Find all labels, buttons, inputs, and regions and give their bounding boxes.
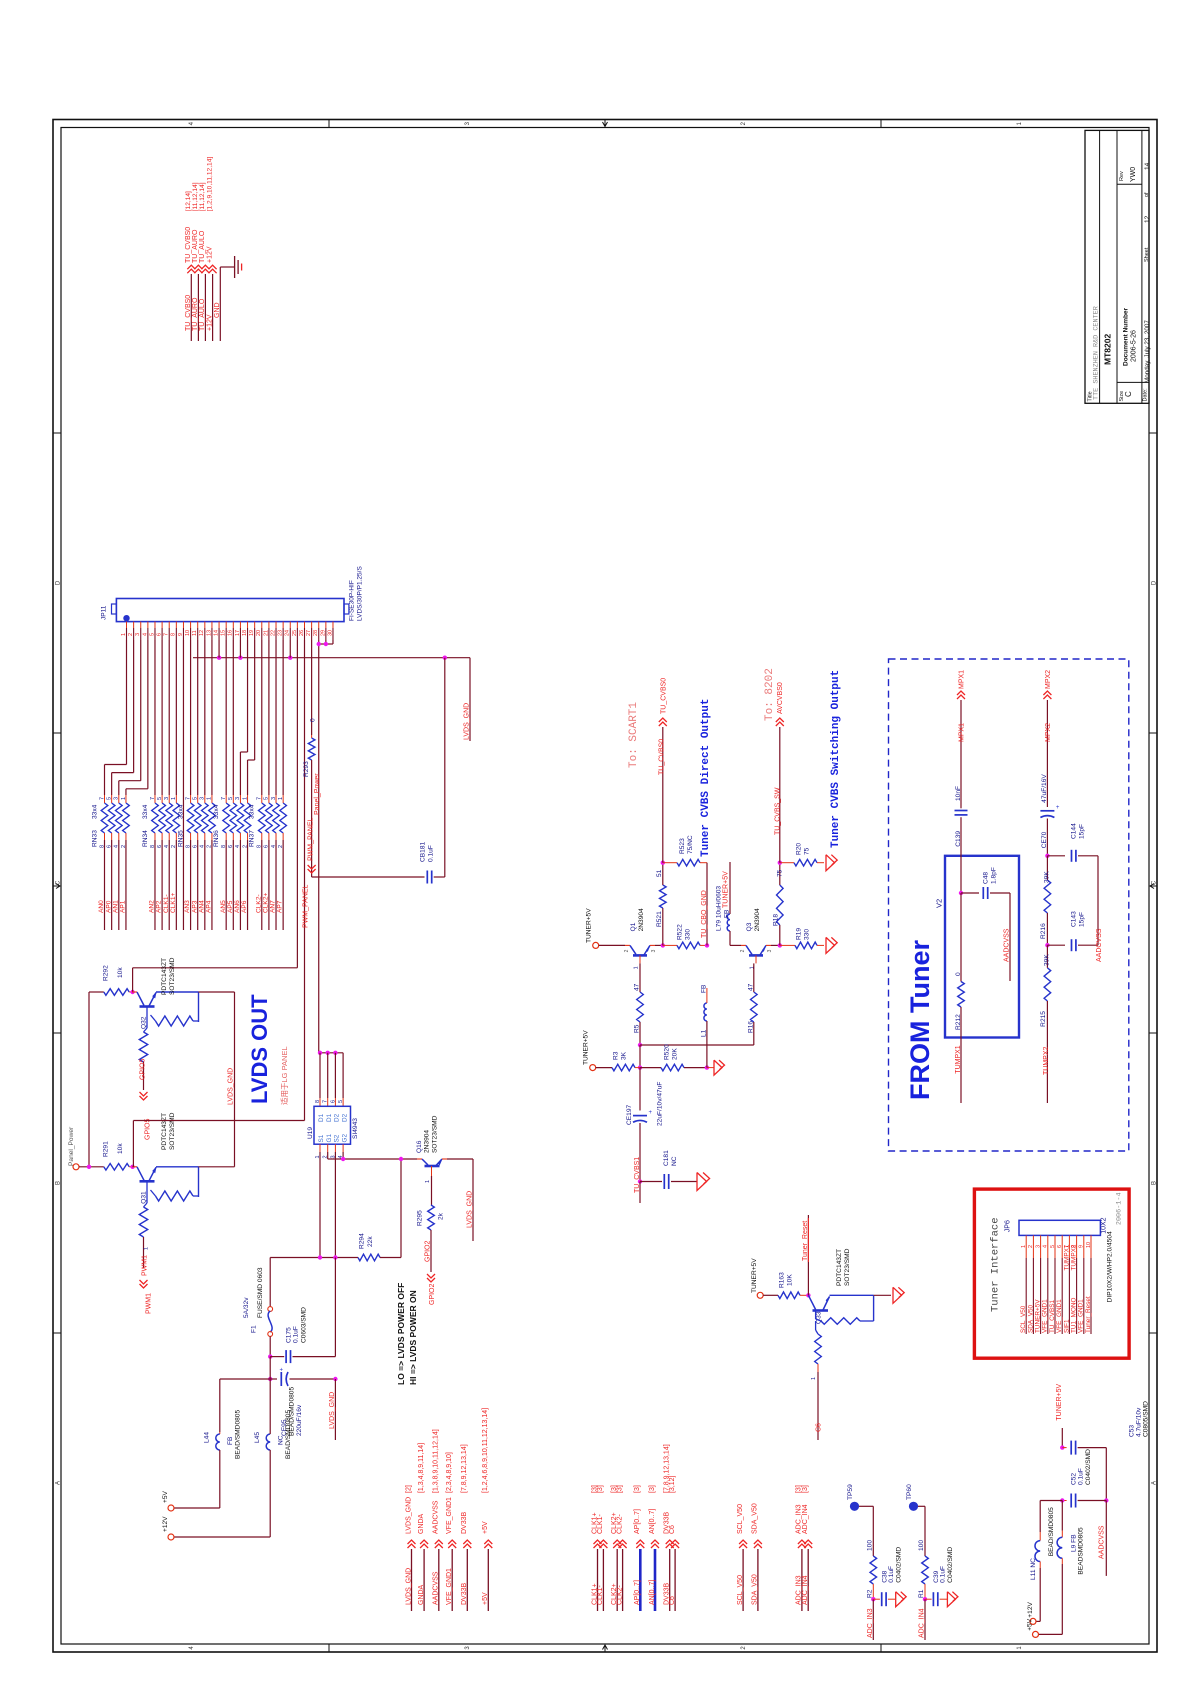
svg-text:1: 1 [811, 1377, 817, 1380]
svg-text:TU_AULO: TU_AULO [199, 230, 206, 263]
resistor R523 [663, 862, 677, 864]
red box Tuner Interface [974, 1189, 1129, 1358]
RN35 element 3 [204, 795, 206, 803]
wire pin5 [154, 640, 156, 795]
svg-text:+12V: +12V [162, 1516, 169, 1532]
svg-text:1: 1 [750, 966, 756, 969]
svg-text:39K: 39K [1044, 954, 1051, 966]
ground triangle C39 [947, 1592, 955, 1607]
zone ticks top edge [328, 120, 330, 128]
svg-text:TUNER+5V: TUNER+5V [586, 908, 593, 943]
transistor Q31 PDTC143ZT [132, 1166, 137, 1168]
resistor R16 [751, 992, 758, 1022]
junction dot Q3 emitter [778, 943, 782, 947]
wire TU_CBO_GND [706, 863, 708, 946]
svg-text:2: 2 [740, 949, 746, 952]
svg-text:4: 4 [1043, 1245, 1049, 1248]
svg-text:AN[0..7]: AN[0..7] [649, 1580, 656, 1605]
capacitor C139 [955, 810, 968, 812]
svg-text:AN4: AN4 [198, 900, 205, 913]
Q33 internal base resistor [815, 1321, 817, 1330]
resistor R5 [637, 992, 644, 1022]
wire RN36 out AP5 [232, 840, 234, 930]
input flag GPIO2 chevron [427, 1278, 435, 1282]
svg-text:9: 9 [1079, 1245, 1085, 1248]
RN34 element 4 [175, 795, 177, 803]
resistor R216 [1046, 856, 1048, 880]
junction dot C175 node [268, 1354, 272, 1358]
svg-text:R522: R522 [677, 924, 684, 940]
svg-text:TU_AURO: TU_AURO [192, 229, 199, 263]
center arrow left [53, 884, 60, 889]
svg-text:7: 7 [150, 797, 156, 800]
svg-text:[1,2,9,10,11,12,14]: [1,2,9,10,11,12,14] [206, 157, 213, 212]
junction dot R18 top [778, 861, 782, 865]
capacitor C143 branch [1047, 944, 1065, 946]
svg-text:CE70: CE70 [1041, 831, 1048, 848]
svg-text:HI => LVDS POWER ON: HI => LVDS POWER ON [408, 1290, 418, 1385]
svg-text:75/NC: 75/NC [687, 835, 694, 854]
svg-text:C143: C143 [1071, 911, 1078, 927]
svg-text:CLK1-: CLK1- [597, 1584, 604, 1605]
wire RN36 out AN6 [239, 840, 241, 930]
inductor L11 [1039, 1532, 1041, 1541]
svg-text:SOT23/SMD: SOT23/SMD [432, 1115, 439, 1153]
svg-text:MT8202: MT8202 [1103, 334, 1113, 365]
wire TUNER+5V stub corner [1061, 1428, 1063, 1448]
svg-text:FI-SE30P-HIF: FI-SE30P-HIF [349, 580, 356, 621]
JP6 pin 4 wire [1047, 1235, 1049, 1258]
wire ADC_IN3 stub [872, 1599, 874, 1640]
junction dot Q1 emitter node [661, 943, 665, 947]
transistor Q33 PDTC143ZT [808, 1295, 815, 1309]
wire pin25 rail to R292 node [133, 967, 298, 969]
wire Q31 emitter rail meets Q32 loop [199, 1166, 235, 1168]
RN33 element 4 [125, 795, 127, 803]
svg-text:0.1uF: 0.1uF [1078, 1468, 1085, 1485]
wire RN35 out AN4 [204, 840, 206, 930]
input flag TU_AULO [201, 265, 209, 269]
JP6 pin 3 wire [1040, 1235, 1042, 1258]
RN37 element 2 [268, 795, 270, 803]
svg-text:AADCVSS: AADCVSS [433, 1500, 440, 1534]
svg-text:C0402/SMD: C0402/SMD [1085, 1449, 1092, 1485]
wire pins 29 30 common [319, 643, 333, 645]
svg-text:R163: R163 [779, 1272, 786, 1288]
svg-text:7: 7 [185, 797, 191, 800]
JP6 pin 6 wire [1061, 1235, 1063, 1258]
svg-text:CE197: CE197 [626, 1105, 633, 1125]
wire pin8 [175, 640, 177, 795]
junction dot R292 out [130, 990, 134, 994]
svg-text:C0402/SMD: C0402/SMD [947, 1547, 954, 1583]
svg-text:A: A [1151, 1481, 1157, 1485]
svg-text:C0402/SMD: C0402/SMD [896, 1547, 903, 1583]
svg-text:C6: C6 [669, 1596, 676, 1605]
JP6 pin 10 wire [1090, 1235, 1092, 1258]
wire pin6 [161, 640, 163, 795]
svg-text:MPX1: MPX1 [959, 723, 966, 742]
output flag TU_CVBS0 chevron [659, 718, 667, 722]
signal flag C6 [671, 1540, 679, 1544]
wire MPX2 column [1046, 700, 1048, 807]
inductor L1 [704, 1003, 707, 1021]
svg-text:Tuner CVBS Direct Output: Tuner CVBS Direct Output [700, 699, 712, 857]
dashed box FROM Tuner [889, 659, 1129, 1151]
svg-text:Sheet: Sheet [1144, 247, 1150, 262]
svg-text:6: 6 [330, 1100, 336, 1103]
svg-text:0.1uF: 0.1uF [293, 1326, 300, 1343]
terminal TUNER+5V Q1 [593, 942, 599, 948]
JP6 pin 9 wire [1083, 1235, 1085, 1258]
terminal TUNER+5V Q33 [757, 1292, 763, 1298]
wire pin23 [282, 640, 284, 795]
svg-text:AP5: AP5 [227, 900, 234, 913]
svg-text:[11,12,14]: [11,12,14] [199, 182, 206, 211]
wire ADC_IN4 stub [924, 1599, 926, 1640]
svg-text:To: 8202: To: 8202 [764, 668, 776, 721]
wire pin22 [275, 640, 277, 795]
wire RN34 out CLK1+ [175, 840, 177, 930]
inductor L45 [266, 1434, 270, 1450]
svg-text:TUNER+5V: TUNER+5V [723, 871, 730, 908]
svg-text:0: 0 [310, 718, 317, 722]
svg-text:TU_CVBS_SW: TU_CVBS_SW [774, 787, 781, 835]
terminal TUNER+5V R3 [590, 1065, 596, 1071]
svg-text:LO => LVDS POWER OFF: LO => LVDS POWER OFF [396, 1283, 406, 1385]
svg-text:AN3: AN3 [184, 900, 191, 913]
svg-text:AN1: AN1 [112, 900, 119, 913]
svg-text:L45: L45 [254, 1432, 261, 1443]
resistor R1 [922, 1556, 929, 1584]
wire TP59 to R2 [859, 1505, 873, 1507]
terminal Panel_Power [73, 1164, 79, 1170]
svg-text:TUMPX2: TUMPX2 [1043, 1047, 1050, 1076]
svg-text:5: 5 [157, 797, 163, 800]
svg-text:C6: C6 [816, 1423, 823, 1432]
junction dot R1 out [923, 1597, 927, 1601]
signal flag CLK2+ [613, 1540, 621, 1544]
svg-text:R521: R521 [656, 911, 663, 927]
svg-text:Q3: Q3 [746, 922, 753, 931]
svg-text:D: D [1151, 580, 1157, 585]
svg-text:PDTC143ZT: PDTC143ZT [161, 1113, 168, 1150]
wire U19 drain pin 5 [342, 1053, 344, 1098]
svg-text:AN6: AN6 [234, 900, 241, 913]
signal flag LVDS_GND [408, 1540, 416, 1544]
resistor R3 [612, 1064, 635, 1071]
svg-text:3: 3 [235, 797, 241, 800]
resistor R215 [1044, 968, 1051, 1001]
svg-text:GNDA: GNDA [418, 1584, 425, 1605]
resistor R212 [960, 893, 962, 982]
svg-text:SOT23/SMD: SOT23/SMD [169, 1112, 176, 1150]
svg-text:C52: C52 [1071, 1473, 1078, 1485]
svg-text:LVDS_GND: LVDS_GND [405, 1568, 412, 1605]
terminal +5V corner [1039, 1633, 1063, 1635]
svg-text:FROM Tuner: FROM Tuner [905, 940, 935, 1100]
svg-text:AN[0..7]: AN[0..7] [649, 1509, 656, 1534]
svg-text:Panel_Power: Panel_Power [314, 773, 321, 815]
input flag TU_AURO [194, 265, 202, 269]
svg-text:1: 1 [171, 797, 177, 800]
JP6 pin 5 wire [1054, 1235, 1056, 1258]
svg-text:R294: R294 [359, 1233, 366, 1249]
svg-text:TUNER+5V: TUNER+5V [1056, 1384, 1063, 1421]
signal flag AADCVSS [435, 1540, 443, 1544]
svg-text:TU_CVBS1: TU_CVBS1 [1049, 1300, 1056, 1333]
svg-text:R19: R19 [796, 928, 803, 940]
svg-text:1: 1 [121, 797, 127, 800]
signal flag DV33B [463, 1540, 471, 1544]
svg-text:of: of [1144, 192, 1150, 197]
svg-text:VFE_GND1: VFE_GND1 [446, 1568, 453, 1605]
svg-text:R216: R216 [1040, 923, 1047, 939]
svg-text:AP[0..7]: AP[0..7] [634, 1580, 641, 1605]
svg-text:F1: F1 [251, 1325, 258, 1333]
svg-text:1: 1 [425, 1180, 431, 1183]
svg-text:[1,3,8,9,10,11,12,14]: [1,3,8,9,10,11,12,14] [433, 1429, 440, 1493]
Q33 BE loop [815, 1311, 817, 1320]
wire pin11 [197, 640, 199, 795]
capacitor C38 [873, 1598, 880, 1600]
junction dot L1 bottom [705, 1065, 709, 1069]
Q32 internal BE resistor loop [151, 1015, 156, 1021]
svg-text:U19: U19 [307, 1127, 314, 1139]
svg-text:1: 1 [144, 1247, 150, 1250]
wire Q1 emitter to node [655, 944, 663, 946]
signal flag AN[0..7] [651, 1540, 659, 1544]
svg-text:2N3904: 2N3904 [638, 908, 645, 931]
svg-text:TP60: TP60 [906, 1484, 913, 1500]
svg-text:SOT23/SMD: SOT23/SMD [844, 1248, 851, 1286]
wire source bus corner to F1 [269, 1258, 271, 1308]
svg-text:220uF/16v: 220uF/16v [296, 1404, 303, 1436]
wire RN34 out CLK1- [168, 840, 170, 930]
RN33 element 3 [118, 795, 120, 803]
resistor R2 [870, 1556, 877, 1584]
svg-text:PDTC143ZT: PDTC143ZT [161, 958, 168, 995]
zone ticks left edge [53, 432, 61, 434]
ground triangle R20 [826, 855, 835, 871]
svg-text:100: 100 [867, 1540, 874, 1551]
wire Q1 base down to R5 [639, 963, 641, 992]
junction dot R522 out [705, 943, 709, 947]
RN37 element 1 [261, 795, 263, 803]
RN34 element 2 [161, 795, 163, 803]
resistor R293 [311, 735, 313, 738]
svg-text:A: A [55, 1481, 61, 1485]
svg-text:C: C [55, 880, 61, 885]
svg-text:R520: R520 [664, 1044, 671, 1060]
svg-text:R212: R212 [955, 1014, 962, 1030]
capacitor CE95 polarized [269, 1357, 271, 1379]
svg-text:FUSE/SMD 0603: FUSE/SMD 0603 [257, 1267, 264, 1318]
junction dot CE95 node [268, 1377, 272, 1381]
svg-text:330: 330 [804, 929, 811, 940]
wire Panel_Power rail left vertical [88, 992, 90, 1167]
svg-text:AADCVSS: AADCVSS [433, 1571, 440, 1605]
output flag AVCVBS0 chevron [776, 718, 784, 722]
input flag PWM1 chevron [140, 1284, 148, 1288]
svg-text:+5V: +5V [482, 1592, 489, 1605]
svg-text:VFE_GND1: VFE_GND1 [1078, 1299, 1085, 1333]
svg-text:33x4: 33x4 [142, 804, 149, 819]
wire RN33 out AP0 [111, 840, 113, 930]
svg-text:L11 NC: L11 NC [1030, 1558, 1037, 1580]
signal flag DV33B [666, 1540, 674, 1544]
svg-text:V2: V2 [935, 899, 944, 908]
svg-text:10: 10 [1086, 1242, 1092, 1248]
wire RN37 out CLK2+ [268, 840, 270, 930]
junction dot R521 top [661, 861, 665, 865]
svg-text:15pF: 15pF [1079, 912, 1086, 927]
wire RN34 out AN2 [154, 840, 156, 930]
capacitor C53 [1062, 1447, 1066, 1449]
wire RN35 out AN3 [190, 840, 192, 930]
wire corridor pin26 to R291 node [133, 1120, 304, 1122]
svg-text:MPX2: MPX2 [1045, 723, 1052, 742]
svg-text:ADC_IN4: ADC_IN4 [802, 1575, 809, 1605]
wire R295 to GPIO2 [430, 1230, 432, 1272]
input flag TU_CVBS0 [187, 265, 195, 269]
svg-text:AN7: AN7 [270, 900, 277, 913]
svg-text:7: 7 [257, 797, 263, 800]
wire Q3 emitter node [771, 944, 780, 946]
svg-text:C144: C144 [1071, 823, 1078, 839]
zone ticks right edge [1149, 432, 1157, 434]
wire U19 drain bus [319, 1052, 343, 1054]
svg-text:3: 3 [1035, 1245, 1041, 1248]
junction dot CE95 right [333, 1377, 337, 1381]
svg-text:C53: C53 [1129, 1425, 1136, 1437]
transistor Q16 2N3904 [417, 1158, 422, 1160]
svg-text:47: 47 [747, 983, 754, 991]
svg-text:2006-5-26: 2006-5-26 [1131, 330, 1138, 362]
svg-text:+: + [649, 1110, 653, 1116]
svg-text:1: 1 [242, 797, 248, 800]
signal flag +5V [484, 1540, 492, 1544]
wire pin1 stair to RN33 [126, 640, 128, 765]
svg-text:TU_AURO: TU_AURO [192, 297, 199, 331]
svg-text:RN36: RN36 [213, 830, 220, 847]
wire source bus [270, 1257, 358, 1259]
signal flag ADC_IN3 [798, 1540, 806, 1544]
wire Panel_Power to R291 [79, 1166, 104, 1168]
svg-text:0.1uF: 0.1uF [940, 1566, 947, 1583]
svg-text:GND: GND [214, 302, 221, 318]
ground triangle Q33 [893, 1287, 902, 1303]
svg-text:TTE SHENZHEN R&D CENTER: TTE SHENZHEN R&D CENTER [1093, 306, 1101, 400]
resistor R19 [780, 944, 795, 946]
svg-text:100: 100 [918, 1540, 925, 1551]
signal flag CLK1- [599, 1540, 607, 1544]
svg-text:CLK2+: CLK2+ [263, 893, 270, 913]
svg-text:3: 3 [200, 797, 206, 800]
svg-text:4.7uF/10v: 4.7uF/10v [1136, 1407, 1143, 1437]
wire RN35 out AP4 [211, 840, 213, 930]
wire panel power to CB181 [312, 876, 425, 878]
output flag MPX1 chevron [957, 691, 965, 695]
RN35 element 2 [197, 795, 199, 803]
svg-text:JP6: JP6 [1005, 1220, 1012, 1232]
svg-text:10nF: 10nF [955, 786, 962, 801]
svg-text:1.8pF: 1.8pF [991, 867, 998, 884]
junction dot R2 out [871, 1597, 875, 1601]
connector JP6 body [1019, 1220, 1100, 1235]
junction dot R5 bottom [638, 1043, 642, 1047]
junction dots drain bus [318, 1051, 322, 1055]
svg-text:C181: C181 [663, 1150, 670, 1166]
svg-text:GPIO5: GPIO5 [145, 1118, 152, 1140]
svg-text:D2: D2 [341, 1113, 348, 1122]
wire RN33 out AP1 [125, 840, 127, 930]
resistor R522 [663, 944, 677, 946]
svg-text:+5V: +5V [482, 1521, 489, 1534]
svg-text:TUNER+5V: TUNER+5V [1035, 1299, 1042, 1333]
svg-text:+: + [1056, 805, 1060, 811]
wire L11 branch [1040, 1500, 1062, 1502]
svg-text:AP6: AP6 [241, 900, 248, 913]
connector JP11 pin1 marker [123, 615, 129, 621]
svg-text:1: 1 [634, 966, 640, 969]
svg-text:Panel_Power: Panel_Power [68, 1126, 75, 1166]
svg-text:C0805/SMD: C0805/SMD [1143, 1401, 1150, 1437]
signal flag CLK2- [619, 1540, 627, 1544]
svg-text:5: 5 [106, 797, 112, 800]
svg-text:R20: R20 [796, 843, 803, 855]
svg-text:15pF: 15pF [1079, 824, 1086, 839]
signal flag ADC_IN4 [804, 1540, 812, 1544]
svg-text:TUNER+5V: TUNER+5V [583, 1030, 590, 1065]
wire C48 to AADCVSS [1009, 893, 1011, 981]
wire TP60 to R1 [918, 1505, 925, 1507]
svg-text:SCL_V50: SCL_V50 [737, 1575, 744, 1605]
svg-text:[2]: [2] [405, 1485, 412, 1493]
svg-text:GPIO2: GPIO2 [429, 1283, 436, 1305]
signal flag SDA_V50 [754, 1540, 762, 1544]
svg-text:0: 0 [955, 972, 962, 976]
svg-text:BEAD/SMD0805: BEAD/SMD0805 [285, 1410, 292, 1459]
svg-text:SIF1: SIF1 [1063, 1319, 1070, 1333]
signal flag AP[0..7] [636, 1540, 644, 1544]
resistor R18 vertical [779, 925, 781, 945]
svg-text:C175: C175 [286, 1327, 293, 1343]
svg-text:+12V: +12V [1027, 1602, 1034, 1618]
junction dot Q33 base node [806, 1293, 810, 1297]
junction dot C52 left [1060, 1498, 1064, 1502]
center arrow right [1150, 884, 1157, 889]
svg-text:2: 2 [624, 949, 630, 952]
wire TU_CVBS0 riser [662, 727, 664, 863]
wire LVDS_GND stub [469, 658, 471, 741]
resistor R521 vertical [662, 908, 664, 945]
svg-text:GPIO5: GPIO5 [140, 1058, 147, 1080]
svg-text:CLK1-: CLK1- [163, 894, 170, 913]
wire pin12 [204, 640, 206, 795]
svg-text:LVDS_GND: LVDS_GND [464, 703, 471, 740]
ground symbol earth [234, 256, 236, 278]
svg-text:[1,2,4,6,8,9,10,11,12,13,14]: [1,2,4,6,8,9,10,11,12,13,14] [482, 1408, 489, 1493]
svg-text:3: 3 [651, 949, 657, 952]
svg-text:LVDS OUT: LVDS OUT [247, 994, 272, 1104]
capacitor C175 [270, 1356, 284, 1358]
wire RN37 out CLK2- [261, 840, 263, 930]
svg-text:YW0: YW0 [1130, 167, 1137, 182]
svg-text:TU_AULO: TU_AULO [199, 298, 206, 331]
svg-text:R292: R292 [103, 965, 110, 981]
svg-text:C: C [1151, 880, 1157, 885]
